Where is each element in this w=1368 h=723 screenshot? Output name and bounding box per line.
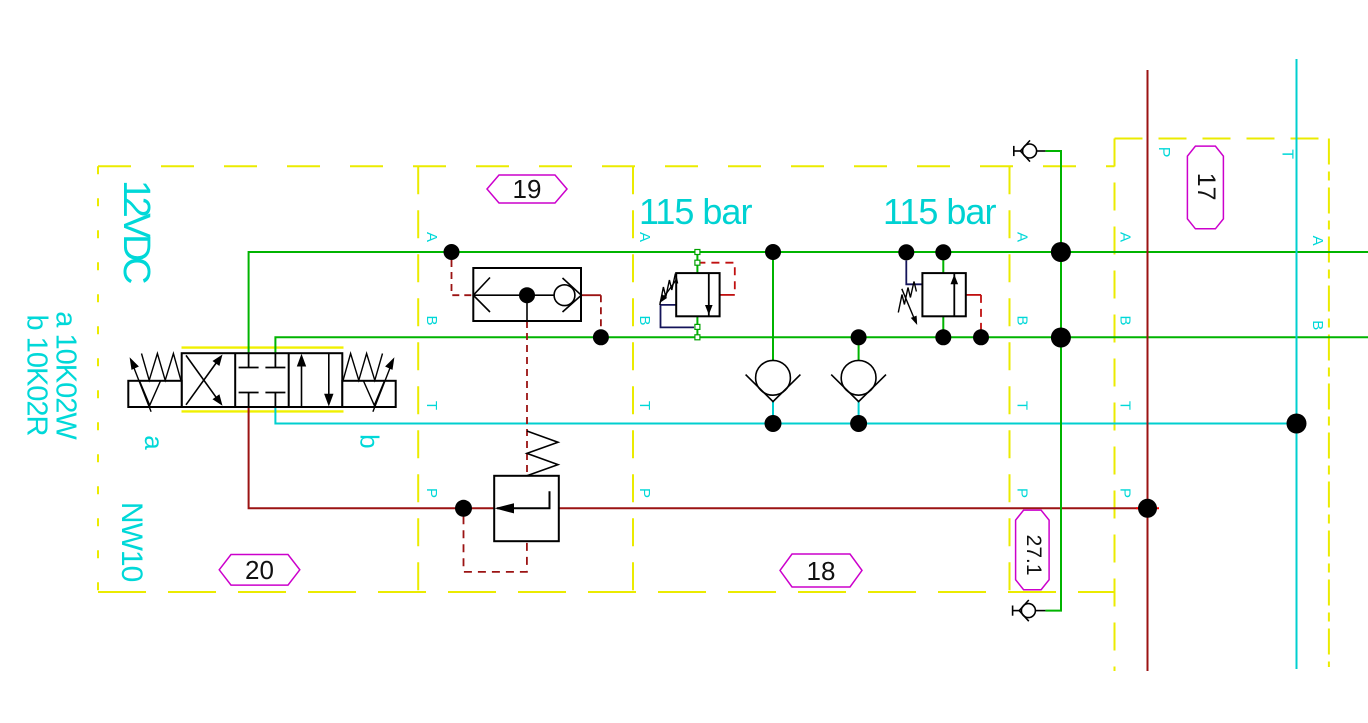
wire: CV1 branch from A bbox=[772, 252, 774, 360]
valve interface mark top bbox=[182, 346, 344, 348]
wire: A line bbox=[249, 252, 1368, 353]
tag 18 bbox=[780, 554, 862, 587]
svg-text:T: T bbox=[636, 401, 653, 410]
pilot line FC1 to RVP spring bbox=[526, 321, 528, 476]
svg-text:20: 20 bbox=[245, 555, 274, 585]
wire: CV2 to T bbox=[858, 402, 860, 424]
wire: T line bbox=[275, 407, 1296, 424]
grip squares RV1 bbox=[695, 250, 700, 340]
DV1 solenoid a symbol bbox=[140, 380, 161, 405]
drain line RV2 bbox=[906, 260, 922, 284]
manifold block border top bbox=[98, 165, 1115, 167]
block divider x=1009 bbox=[1009, 166, 1011, 592]
tag 20 bbox=[219, 555, 300, 586]
svg-text:P: P bbox=[1117, 488, 1134, 498]
svg-text:B: B bbox=[1309, 320, 1326, 330]
pilot line RV2 bbox=[966, 294, 981, 296]
svg-text:P: P bbox=[1014, 488, 1031, 498]
node B4 bbox=[973, 329, 989, 345]
block 17 border right bbox=[1328, 139, 1330, 668]
node B5 gauge bbox=[1051, 328, 1071, 348]
test point TP2 bbox=[1013, 600, 1046, 621]
RV2 internal path bbox=[953, 273, 955, 316]
node FC1 center bbox=[519, 287, 535, 303]
svg-text:T: T bbox=[1117, 401, 1134, 410]
svg-text:19: 19 bbox=[513, 174, 542, 204]
wire: RV1 branch bbox=[696, 252, 698, 337]
FC1 throttle arrow bbox=[473, 278, 490, 313]
DV1 prop arrow a bbox=[134, 368, 151, 412]
wire: P junction highlight bbox=[1136, 507, 1159, 509]
valve interface mark bottom bbox=[182, 410, 344, 412]
svg-text:a: a bbox=[139, 435, 169, 450]
svg-text:T: T bbox=[423, 401, 440, 410]
node B3 bbox=[935, 329, 951, 345]
svg-text:12VDC: 12VDC bbox=[115, 180, 157, 283]
DV1 solenoid b symbol bbox=[363, 380, 384, 405]
RVP internal path bbox=[497, 491, 550, 508]
svg-text:17: 17 bbox=[1192, 173, 1220, 201]
pilot line from A to FC1 bbox=[452, 260, 474, 295]
RVP internal arrowhead bbox=[495, 503, 515, 513]
relief valve RV1 body bbox=[676, 273, 719, 316]
DV1 prop arrow b bbox=[373, 368, 390, 412]
node B1 bbox=[593, 329, 609, 345]
svg-text:b 10K02R: b 10K02R bbox=[20, 315, 52, 436]
DV1 position 2 blocked ports bbox=[239, 353, 286, 407]
node P1 bbox=[455, 500, 472, 517]
RV1 spring bbox=[660, 274, 678, 306]
svg-text:P: P bbox=[1155, 147, 1172, 158]
svg-text:115 bar: 115 bar bbox=[883, 191, 996, 232]
check valve CV2 ball bbox=[841, 360, 876, 395]
node P2 trunk bbox=[1138, 499, 1157, 518]
svg-text:A: A bbox=[423, 232, 440, 242]
svg-text:27.1: 27.1 bbox=[1022, 535, 1045, 576]
RVP spring bbox=[527, 431, 558, 476]
wire: RV2 branch bbox=[942, 252, 944, 337]
pilot line RV1 bbox=[697, 263, 734, 295]
block 17 border top bbox=[1115, 138, 1329, 140]
node A4 bbox=[935, 244, 951, 260]
svg-text:A: A bbox=[636, 232, 653, 242]
svg-text:P: P bbox=[636, 488, 653, 498]
port letters column x=1328 bbox=[1309, 236, 1326, 331]
tag 17 bbox=[1187, 146, 1223, 229]
wire: P trunk vertical bbox=[1147, 70, 1149, 671]
svg-text:a 10K02W: a 10K02W bbox=[49, 311, 81, 440]
svg-text:T: T bbox=[1278, 149, 1295, 159]
directional valve DV1 body bbox=[182, 353, 343, 407]
RV1 internal path bbox=[708, 273, 710, 316]
relief valve RV2 body bbox=[922, 273, 965, 316]
block divider x=418 bbox=[417, 166, 419, 592]
svg-text:B: B bbox=[636, 315, 653, 325]
node A2 bbox=[765, 244, 781, 260]
svg-text:115 bar: 115 bar bbox=[639, 191, 752, 232]
node A5 gauge bbox=[1051, 242, 1071, 262]
wire: gauge line vertical bbox=[1045, 151, 1061, 611]
svg-text:A: A bbox=[1014, 232, 1031, 242]
port letters column x=1114 bbox=[1117, 232, 1134, 498]
svg-text:18: 18 bbox=[807, 556, 836, 586]
CV1 seat bbox=[746, 375, 801, 402]
wire: T trunk vertical bbox=[1296, 59, 1298, 669]
svg-text:P: P bbox=[423, 488, 440, 498]
FC1 check ball bbox=[554, 285, 575, 306]
RV1 adjust arrow bbox=[662, 280, 677, 300]
block divider x=633 bbox=[632, 166, 634, 592]
DV1 position 3 parallel arrows bbox=[301, 364, 303, 407]
FC1 check seat bbox=[563, 278, 582, 312]
svg-text:T: T bbox=[1014, 401, 1031, 410]
svg-text:B: B bbox=[423, 315, 440, 325]
RV2 spring bbox=[898, 282, 916, 313]
DV1 position 1 crossed arrows bbox=[186, 363, 217, 405]
pilot line RVP from P bbox=[464, 516, 527, 572]
RV1 internal arrowhead down bbox=[705, 305, 713, 315]
flow control valve FC1 body bbox=[473, 268, 581, 321]
svg-text:A: A bbox=[1309, 236, 1326, 246]
wire: B line bbox=[275, 337, 1368, 353]
DV1 solenoid b box bbox=[342, 381, 395, 407]
block divider x=1114 bbox=[1114, 139, 1116, 672]
manifold block border bottom bbox=[98, 591, 1115, 593]
svg-text:B: B bbox=[1014, 315, 1031, 325]
check valve CV1 ball bbox=[756, 360, 791, 395]
node A3 bbox=[898, 244, 914, 260]
node T2 bbox=[850, 415, 867, 432]
tag 27.1 bbox=[1016, 510, 1050, 590]
relief valve RVP body bbox=[494, 476, 559, 541]
port letters column x=633 bbox=[636, 232, 653, 498]
test point TP1 bbox=[1014, 140, 1046, 161]
port letters column x=1009 bbox=[1014, 232, 1031, 498]
node T1 bbox=[765, 415, 782, 432]
node T3 trunk bbox=[1287, 414, 1307, 434]
pilot line FC1 to B bbox=[581, 294, 601, 296]
wire: CV1 to T bbox=[772, 402, 774, 424]
svg-text:b: b bbox=[355, 434, 385, 448]
RV2 adjust arrow bbox=[902, 289, 914, 318]
port letters column x=418 bbox=[423, 232, 440, 498]
DV1 spring a bbox=[142, 354, 181, 381]
wire: P line bbox=[249, 407, 1148, 508]
drain line RV1 bbox=[661, 305, 695, 328]
manifold block border left bbox=[97, 166, 99, 592]
svg-text:A: A bbox=[1117, 232, 1134, 242]
RV2 internal arrowhead up bbox=[951, 275, 959, 285]
wire: CV2 branch from B bbox=[858, 337, 860, 360]
node A1 bbox=[444, 244, 460, 260]
svg-text:B: B bbox=[1117, 315, 1134, 325]
svg-text:NW10: NW10 bbox=[115, 502, 148, 582]
CV2 seat bbox=[831, 375, 886, 402]
DV1 solenoid a box bbox=[128, 381, 181, 407]
DV1 spring b bbox=[343, 354, 382, 381]
tag 19 bbox=[487, 175, 567, 203]
node B2 bbox=[851, 329, 867, 345]
